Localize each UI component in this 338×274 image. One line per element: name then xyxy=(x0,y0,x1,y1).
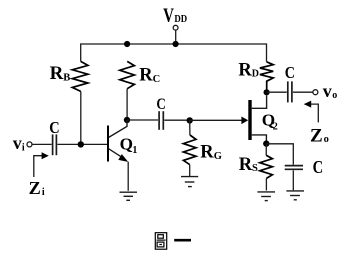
svg-text:Q: Q xyxy=(120,135,133,154)
arrow Zi xyxy=(34,152,49,177)
svg-text:R: R xyxy=(139,66,153,86)
svg-text:R: R xyxy=(50,63,64,84)
terminal vi circle xyxy=(27,142,32,147)
svg-text:V: V xyxy=(163,5,174,27)
svg-text:C: C xyxy=(285,63,295,82)
svg-text:S: S xyxy=(252,163,258,174)
resistor RB xyxy=(72,61,88,91)
ground C4 xyxy=(286,191,304,200)
arrow Q2 gate xyxy=(241,117,248,125)
node RC top xyxy=(124,41,130,47)
label RD xyxy=(238,60,259,80)
ground RS xyxy=(257,192,275,201)
resistor RG xyxy=(183,120,196,176)
wire C3 to vo xyxy=(293,91,313,93)
label Zo xyxy=(310,125,329,146)
arrow Zo xyxy=(304,101,319,123)
svg-text:o: o xyxy=(324,134,329,145)
node collector xyxy=(124,117,130,123)
wire gate node to Q2 xyxy=(190,119,242,121)
resistor RC xyxy=(120,61,135,88)
capacitor C2 xyxy=(159,111,163,130)
caption figure-1 glyph yi xyxy=(174,239,191,242)
transistor Q1 xyxy=(108,120,128,191)
svg-text:i: i xyxy=(22,143,25,154)
svg-text:Z: Z xyxy=(310,125,323,146)
label RS xyxy=(239,155,258,175)
power terminal VDD circle xyxy=(173,25,178,30)
label vi xyxy=(13,133,25,154)
wire RC bottom lead xyxy=(126,89,128,120)
svg-text:1: 1 xyxy=(132,145,137,156)
svg-text:R: R xyxy=(239,155,253,175)
svg-text:C: C xyxy=(156,94,165,113)
svg-text:D: D xyxy=(252,69,259,80)
label VDD xyxy=(163,5,187,27)
ground RG xyxy=(181,177,198,187)
svg-text:v: v xyxy=(323,81,332,101)
wire VDD lead xyxy=(175,30,177,44)
svg-text:v: v xyxy=(13,133,22,153)
capacitor C4 xyxy=(285,166,303,170)
node VDD rail junction xyxy=(173,41,179,47)
svg-text:o: o xyxy=(332,90,337,101)
svg-text:i: i xyxy=(42,187,45,198)
svg-text:B: B xyxy=(63,72,70,83)
label RB xyxy=(50,63,71,84)
label Q1 xyxy=(120,135,138,157)
resistor RD xyxy=(260,62,273,93)
capacitor C1 xyxy=(53,134,57,155)
wire drain to C3 xyxy=(267,91,287,93)
node base/RB junction xyxy=(78,141,84,147)
node gate/RG xyxy=(187,117,193,123)
caption figure-1 glyph tu xyxy=(155,233,166,250)
wire vi to C1 xyxy=(32,143,51,145)
wire RB to base node xyxy=(80,91,82,144)
svg-text:Z: Z xyxy=(29,178,41,198)
capacitor C3 xyxy=(288,81,292,102)
svg-text:C: C xyxy=(153,74,161,85)
label vo xyxy=(323,81,337,101)
wire C1 to base xyxy=(57,143,107,145)
svg-text:G: G xyxy=(214,151,222,162)
node source xyxy=(263,140,269,146)
label RG xyxy=(200,143,222,163)
transistor Q2 xyxy=(248,95,266,143)
svg-text:R: R xyxy=(238,60,252,80)
label Q2 xyxy=(262,110,278,132)
ground Q1 emitter xyxy=(120,192,138,200)
svg-text:DD: DD xyxy=(174,14,187,25)
wire top rail xyxy=(81,44,267,62)
label RC xyxy=(139,66,160,86)
svg-text:C: C xyxy=(313,157,324,177)
wire C2 to gate node xyxy=(164,119,189,121)
svg-text:R: R xyxy=(200,143,214,163)
label Zi xyxy=(29,178,45,198)
resistor RS xyxy=(260,144,273,191)
svg-text:2: 2 xyxy=(273,122,278,133)
svg-text:C: C xyxy=(49,118,59,137)
wire source to C4 xyxy=(266,144,293,165)
wire C4 to ground xyxy=(292,170,294,190)
node drain xyxy=(264,89,270,95)
wire collector to C2 xyxy=(127,119,158,121)
terminal vo circle xyxy=(313,90,318,95)
